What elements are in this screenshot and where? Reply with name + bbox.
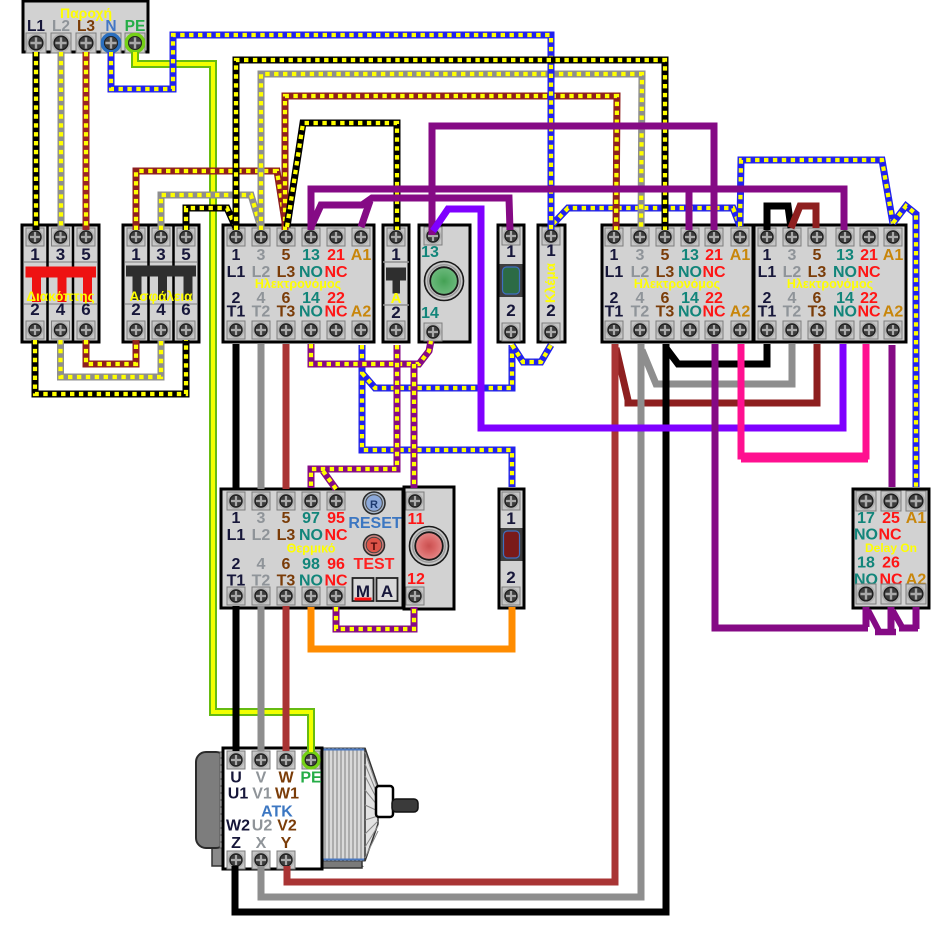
svg-text:12: 12 bbox=[407, 571, 425, 588]
svg-text:2: 2 bbox=[506, 568, 515, 587]
svg-text:17: 17 bbox=[857, 510, 875, 527]
svg-text:3: 3 bbox=[257, 510, 266, 527]
svg-text:5: 5 bbox=[181, 245, 190, 264]
svg-text:4: 4 bbox=[257, 556, 266, 573]
svg-text:A1: A1 bbox=[351, 247, 372, 264]
svg-text:T3: T3 bbox=[808, 304, 827, 321]
svg-text:3: 3 bbox=[56, 245, 65, 264]
svg-text:A1: A1 bbox=[906, 510, 927, 527]
svg-text:V1: V1 bbox=[252, 786, 272, 803]
svg-text:4: 4 bbox=[56, 300, 66, 319]
svg-text:Ηλεκτρονόμος: Ηλεκτρονόμος bbox=[634, 277, 720, 291]
svg-text:5: 5 bbox=[813, 247, 822, 264]
svg-text:L3: L3 bbox=[77, 18, 95, 35]
svg-text:A2: A2 bbox=[883, 304, 904, 321]
svg-text:PE: PE bbox=[125, 18, 146, 35]
svg-text:1: 1 bbox=[506, 242, 515, 261]
svg-text:14: 14 bbox=[421, 305, 439, 322]
svg-text:2: 2 bbox=[546, 301, 555, 320]
svg-text:1: 1 bbox=[506, 509, 515, 528]
svg-text:T2: T2 bbox=[631, 304, 650, 321]
svg-text:96: 96 bbox=[327, 556, 345, 573]
svg-text:A2: A2 bbox=[351, 304, 372, 321]
svg-text:13: 13 bbox=[421, 244, 439, 261]
svg-text:T2: T2 bbox=[783, 304, 802, 321]
svg-text:L1: L1 bbox=[227, 264, 246, 281]
svg-text:25: 25 bbox=[882, 510, 900, 527]
svg-text:3: 3 bbox=[156, 245, 165, 264]
svg-text:Y: Y bbox=[281, 835, 292, 852]
svg-text:21: 21 bbox=[327, 247, 345, 264]
svg-text:5: 5 bbox=[282, 247, 291, 264]
svg-text:A2: A2 bbox=[730, 304, 751, 321]
svg-text:V2: V2 bbox=[277, 818, 297, 835]
svg-text:2: 2 bbox=[131, 300, 140, 319]
svg-text:U: U bbox=[230, 770, 242, 787]
svg-text:U1: U1 bbox=[228, 786, 249, 803]
svg-text:L2: L2 bbox=[252, 527, 271, 544]
svg-text:W2: W2 bbox=[226, 818, 250, 835]
svg-text:6: 6 bbox=[81, 300, 90, 319]
svg-text:U2: U2 bbox=[252, 818, 273, 835]
svg-text:A1: A1 bbox=[730, 247, 751, 264]
svg-text:Ηλεκτρονόμος: Ηλεκτρονόμος bbox=[255, 277, 341, 291]
svg-text:TEST: TEST bbox=[354, 556, 395, 573]
svg-text:T1: T1 bbox=[227, 304, 246, 321]
svg-text:X: X bbox=[256, 835, 267, 852]
svg-text:T2: T2 bbox=[252, 304, 271, 321]
svg-text:1: 1 bbox=[232, 247, 241, 264]
svg-text:Z: Z bbox=[231, 835, 241, 852]
svg-text:Ηλεκτρονόμος: Ηλεκτρονόμος bbox=[787, 277, 873, 291]
svg-text:1: 1 bbox=[232, 510, 241, 527]
svg-text:1: 1 bbox=[546, 241, 555, 260]
svg-text:NC: NC bbox=[702, 304, 726, 321]
svg-text:6: 6 bbox=[282, 556, 291, 573]
svg-text:5: 5 bbox=[282, 510, 291, 527]
svg-text:2: 2 bbox=[506, 301, 515, 320]
svg-text:1: 1 bbox=[30, 245, 39, 264]
svg-text:W1: W1 bbox=[275, 786, 299, 803]
svg-text:Delay On: Delay On bbox=[865, 541, 917, 555]
svg-text:NO: NO bbox=[299, 304, 323, 321]
svg-text:1: 1 bbox=[391, 245, 400, 264]
svg-text:5: 5 bbox=[661, 247, 670, 264]
svg-text:3: 3 bbox=[636, 247, 645, 264]
svg-text:18: 18 bbox=[857, 555, 875, 572]
svg-text:95: 95 bbox=[327, 510, 345, 527]
svg-text:L1: L1 bbox=[227, 527, 246, 544]
svg-text:1: 1 bbox=[763, 247, 772, 264]
svg-text:2: 2 bbox=[232, 556, 241, 573]
svg-text:6: 6 bbox=[181, 300, 190, 319]
svg-text:3: 3 bbox=[257, 247, 266, 264]
svg-text:T3: T3 bbox=[277, 304, 296, 321]
svg-text:L1: L1 bbox=[605, 264, 624, 281]
svg-text:W: W bbox=[278, 770, 294, 787]
svg-text:NO: NO bbox=[678, 304, 702, 321]
svg-text:NO: NO bbox=[833, 304, 857, 321]
svg-text:13: 13 bbox=[681, 247, 699, 264]
svg-text:1: 1 bbox=[131, 245, 140, 264]
svg-text:Θερμικό: Θερμικό bbox=[287, 542, 336, 556]
svg-text:4: 4 bbox=[156, 300, 166, 319]
svg-text:Κλέμα: Κλέμα bbox=[543, 262, 558, 303]
svg-text:RESET: RESET bbox=[348, 515, 402, 532]
svg-text:T: T bbox=[371, 541, 378, 553]
svg-text:L1: L1 bbox=[758, 264, 777, 281]
svg-text:T1: T1 bbox=[605, 304, 624, 321]
svg-text:A1: A1 bbox=[883, 247, 904, 264]
svg-text:T3: T3 bbox=[656, 304, 675, 321]
svg-text:13: 13 bbox=[302, 247, 320, 264]
svg-text:L1: L1 bbox=[27, 18, 45, 35]
svg-text:97: 97 bbox=[302, 510, 320, 527]
svg-text:11: 11 bbox=[408, 511, 425, 528]
svg-text:A: A bbox=[381, 582, 393, 601]
svg-text:NC: NC bbox=[857, 304, 881, 321]
svg-text:21: 21 bbox=[860, 247, 878, 264]
svg-text:R: R bbox=[370, 499, 378, 511]
svg-text:5: 5 bbox=[81, 245, 90, 264]
svg-text:N: N bbox=[105, 18, 116, 35]
svg-text:1: 1 bbox=[610, 247, 619, 264]
svg-text:2: 2 bbox=[30, 300, 39, 319]
svg-text:NC: NC bbox=[324, 304, 348, 321]
svg-text:3: 3 bbox=[788, 247, 797, 264]
svg-text:26: 26 bbox=[882, 555, 900, 572]
svg-text:L2: L2 bbox=[52, 18, 70, 35]
svg-text:T1: T1 bbox=[758, 304, 777, 321]
svg-text:V: V bbox=[256, 770, 267, 787]
svg-text:98: 98 bbox=[302, 556, 320, 573]
svg-text:PE: PE bbox=[300, 770, 322, 787]
svg-text:2: 2 bbox=[391, 303, 400, 322]
svg-text:13: 13 bbox=[836, 247, 854, 264]
svg-text:21: 21 bbox=[705, 247, 723, 264]
